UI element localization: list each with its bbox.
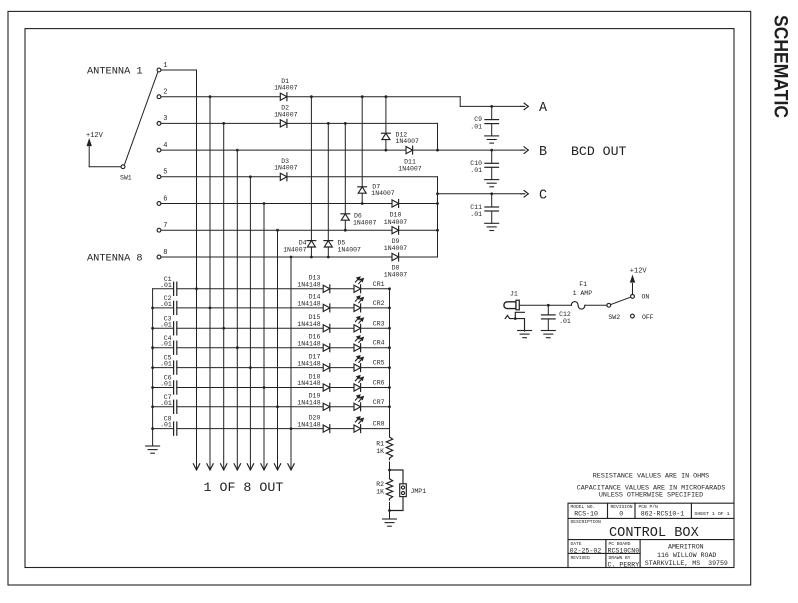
svg-text:1: 1 bbox=[163, 62, 167, 70]
svg-text:CR3: CR3 bbox=[373, 320, 385, 327]
junction C out bbox=[436, 192, 439, 195]
wire +12V to SW1 pivot bbox=[89, 166, 121, 168]
wire LED CR7 to bus bbox=[361, 406, 390, 408]
svg-text:116 WILLOW ROAD: 116 WILLOW ROAD bbox=[657, 552, 716, 559]
junction bottom of D12 vertical bbox=[385, 149, 388, 152]
wire output drop line 3 bbox=[223, 123, 225, 469]
ground left capacitor bus bbox=[146, 445, 160, 447]
junction R1/JMP1 bbox=[388, 469, 391, 472]
junction R2/JMP1 bottom bbox=[388, 509, 391, 512]
ground below R2 bbox=[383, 518, 397, 520]
junction row 6 / drop line bbox=[263, 386, 266, 389]
diode D20 1N4148 bbox=[323, 425, 330, 432]
node 1 (antenna selector contact) bbox=[157, 68, 161, 72]
svg-text:JMP1: JMP1 bbox=[411, 488, 427, 495]
svg-text:C: C bbox=[539, 189, 547, 204]
junction top of D6 vertical bbox=[344, 122, 347, 125]
svg-text:J1: J1 bbox=[510, 291, 518, 298]
wire C output bbox=[438, 193, 521, 195]
junction LED bus row 6 bbox=[388, 386, 391, 389]
diode D4 1N4007 bbox=[307, 240, 316, 242]
svg-text:862-RCS10-1: 862-RCS10-1 bbox=[641, 510, 685, 517]
svg-text:5: 5 bbox=[163, 169, 167, 177]
power +12V (right) bbox=[632, 284, 634, 295]
junction top of D4 vertical bbox=[310, 95, 313, 98]
junction LED bus row 7 bbox=[388, 405, 391, 408]
junction LED bus row 5 bbox=[388, 366, 391, 369]
svg-text:.01: .01 bbox=[160, 301, 172, 308]
wire from node 1 bbox=[161, 69, 197, 71]
junction bottom of D4 vertical bbox=[310, 256, 313, 259]
diode D8 1N4007 bbox=[392, 253, 399, 260]
svg-text:CONTROL BOX: CONTROL BOX bbox=[609, 526, 699, 541]
svg-text:1 AMP: 1 AMP bbox=[573, 290, 593, 297]
arrow output 3 bbox=[221, 464, 224, 470]
junction C10 tap bbox=[490, 149, 493, 152]
LED CR3 bbox=[354, 325, 361, 332]
junction B bus / B line bbox=[436, 149, 439, 152]
ground below C10 bbox=[485, 179, 499, 181]
node 6 (antenna selector contact) bbox=[157, 202, 161, 206]
arrow output 8 bbox=[288, 464, 291, 470]
wire LED CR1 to bus bbox=[361, 288, 390, 290]
svg-text:RESISTANCE VALUES ARE IN OHMS: RESISTANCE VALUES ARE IN OHMS bbox=[593, 473, 709, 481]
svg-text:1N4148: 1N4148 bbox=[297, 301, 321, 308]
svg-text:1N4007: 1N4007 bbox=[371, 190, 395, 197]
junction node 5 / drop line bbox=[249, 175, 252, 178]
svg-text:A: A bbox=[539, 101, 548, 116]
resistor R2 1K bbox=[386, 479, 392, 500]
ground J1 bbox=[518, 330, 532, 332]
ground below C11 bbox=[485, 222, 499, 224]
svg-text:1N4007: 1N4007 bbox=[384, 271, 408, 278]
wire from node 2 bbox=[161, 96, 460, 98]
svg-text:.01: .01 bbox=[160, 321, 172, 328]
diode D9 1N4007 bbox=[392, 227, 399, 234]
junction C12 tap bbox=[547, 304, 550, 307]
node 8 (antenna selector contact) bbox=[157, 255, 161, 259]
junction C bus / node 6 bbox=[436, 202, 439, 205]
junction cap bus row 4 bbox=[151, 346, 154, 349]
switch SW1 bbox=[121, 165, 125, 169]
svg-text:STARKVILLE, MS 39759: STARKVILLE, MS 39759 bbox=[645, 560, 728, 567]
svg-text:REVISED: REVISED bbox=[571, 555, 591, 561]
diode D19 1N4148 bbox=[323, 403, 330, 410]
svg-text:RCS-10: RCS-10 bbox=[574, 510, 598, 517]
arrow output 2 bbox=[207, 464, 210, 470]
junction cap bus row 3 bbox=[151, 327, 154, 330]
junction node 3 / drop line bbox=[222, 122, 225, 125]
svg-text:CR6: CR6 bbox=[373, 380, 385, 387]
diode D3 1N4007 bbox=[280, 173, 287, 180]
svg-text:SCHEMATIC: SCHEMATIC bbox=[770, 15, 792, 118]
wire from node 5 bbox=[161, 176, 438, 178]
wire matrix vertical for D12 bbox=[385, 97, 387, 150]
svg-text:1N4007: 1N4007 bbox=[396, 138, 420, 145]
arrow output 6 bbox=[261, 464, 264, 470]
arrow output C bbox=[524, 191, 528, 194]
svg-text:B: B bbox=[539, 145, 547, 160]
junction cap bus row 2 bbox=[151, 307, 154, 310]
node 4 (antenna selector contact) bbox=[157, 148, 161, 152]
svg-text:3: 3 bbox=[163, 115, 167, 123]
wire row 5 bbox=[177, 367, 323, 369]
LED CR4 bbox=[354, 344, 361, 351]
svg-text:.01: .01 bbox=[160, 381, 172, 388]
wire row 7 to LED bbox=[330, 406, 354, 408]
wire LED CR4 to bus bbox=[361, 347, 390, 349]
svg-text:+12V: +12V bbox=[630, 267, 648, 275]
arrow output 4 bbox=[234, 464, 237, 470]
junction top of D12 vertical bbox=[385, 95, 388, 98]
wire J1 to SW2 bbox=[519, 304, 571, 306]
wire JMP1 branch top bbox=[390, 470, 404, 484]
wire from node 4 bbox=[161, 149, 521, 151]
svg-text:1N4148: 1N4148 bbox=[297, 282, 321, 289]
wire left capacitor bus bbox=[152, 289, 154, 446]
junction node 4 / drop line bbox=[236, 149, 239, 152]
junction row 5 / drop line bbox=[249, 366, 252, 369]
wire C bus vertical bbox=[437, 177, 439, 257]
svg-text:.01: .01 bbox=[470, 211, 482, 218]
junction C bus / node 7 bbox=[436, 229, 439, 232]
arrow output 7 bbox=[274, 464, 277, 470]
junction LED bus row 4 bbox=[388, 346, 391, 349]
arrow output A bbox=[524, 103, 528, 106]
svg-text:1N4007: 1N4007 bbox=[274, 165, 298, 172]
capacitor C10 .01 bbox=[491, 150, 493, 163]
capacitor C12 .01 bbox=[547, 305, 549, 315]
svg-text:F1: F1 bbox=[579, 281, 587, 288]
svg-text:1N4148: 1N4148 bbox=[297, 421, 321, 428]
diode D12 1N4007 bbox=[382, 132, 391, 134]
svg-text:0: 0 bbox=[619, 510, 623, 517]
node 5 (antenna selector contact) bbox=[157, 175, 161, 179]
wire from node 6 bbox=[161, 203, 438, 205]
junction row 7 / drop line bbox=[276, 405, 279, 408]
junction LED bus row 3 bbox=[388, 327, 391, 330]
wire R2 to ground bbox=[389, 503, 391, 520]
svg-text:1N4148: 1N4148 bbox=[297, 400, 321, 407]
svg-text:CR8: CR8 bbox=[373, 421, 385, 428]
svg-text:SW1: SW1 bbox=[120, 175, 132, 182]
svg-text:.01: .01 bbox=[160, 400, 172, 407]
junction cap bus row 7 bbox=[151, 405, 154, 408]
svg-text:1N4007: 1N4007 bbox=[353, 219, 377, 226]
jumper JMP1 bbox=[400, 484, 407, 497]
wire row 8 bbox=[177, 428, 323, 430]
junction bottom of D6 vertical bbox=[344, 229, 347, 232]
svg-text:PCB P/N: PCB P/N bbox=[639, 504, 659, 510]
svg-text:1N4007: 1N4007 bbox=[274, 85, 298, 92]
wire output drop line 7 bbox=[277, 230, 279, 469]
LED CR8 bbox=[354, 425, 361, 432]
wire output drop line 6 bbox=[263, 204, 265, 470]
svg-text:CR4: CR4 bbox=[373, 340, 385, 347]
svg-text:AMERITRON: AMERITRON bbox=[668, 544, 704, 551]
wire output drop line 5 bbox=[249, 177, 251, 470]
capacitor C2 .01 bbox=[153, 307, 174, 309]
diode D2 1N4007 bbox=[280, 120, 287, 127]
svg-text:CR2: CR2 bbox=[373, 300, 385, 307]
junction cap bus row 6 bbox=[151, 386, 154, 389]
wire row 6 bbox=[177, 387, 323, 389]
junction C11 tap bbox=[490, 192, 493, 195]
wire row 2 to LED bbox=[330, 307, 354, 309]
capacitor C5 .01 bbox=[153, 367, 174, 369]
svg-text:CR7: CR7 bbox=[373, 399, 385, 406]
LED CR5 bbox=[354, 364, 361, 371]
svg-text:1 OF 8 OUT: 1 OF 8 OUT bbox=[204, 480, 284, 495]
J1 sleeve contact spring bbox=[505, 315, 524, 331]
wire row 4 bbox=[177, 347, 323, 349]
svg-text:1N4007: 1N4007 bbox=[338, 246, 362, 253]
capacitor C4 .01 bbox=[153, 347, 174, 349]
wire output drop line 4 bbox=[236, 150, 238, 469]
wire row 7 bbox=[177, 406, 323, 408]
LED CR1 bbox=[354, 285, 361, 292]
junction bottom of D5 vertical bbox=[327, 256, 330, 259]
svg-text:SHEET 1 OF 1: SHEET 1 OF 1 bbox=[694, 511, 729, 517]
svg-text:1N4007: 1N4007 bbox=[384, 219, 408, 226]
diode D7 1N4007 bbox=[358, 186, 367, 188]
junction top of D7 vertical bbox=[361, 95, 364, 98]
junction node 8 / drop line bbox=[290, 256, 293, 259]
svg-text:2: 2 bbox=[163, 89, 167, 97]
wire output drop line 8 bbox=[290, 257, 292, 469]
svg-text:ON: ON bbox=[642, 293, 650, 300]
wire LED CR3 to bus bbox=[361, 327, 390, 329]
node 2 (antenna selector contact) bbox=[157, 95, 161, 99]
wire LED CR5 to bus bbox=[361, 367, 390, 369]
svg-text:MODEL NO.: MODEL NO. bbox=[571, 504, 596, 510]
svg-text:1N4007: 1N4007 bbox=[274, 111, 298, 118]
svg-text:1N4148: 1N4148 bbox=[297, 321, 321, 328]
junction bottom of D7 vertical bbox=[361, 202, 364, 205]
svg-text:.01: .01 bbox=[470, 123, 482, 130]
junction row 8 / drop line bbox=[290, 427, 293, 430]
wire A output step bbox=[459, 97, 461, 107]
wire from node 3 bbox=[161, 122, 438, 124]
svg-text:CR1: CR1 bbox=[373, 281, 385, 288]
LED CR6 bbox=[354, 384, 361, 391]
svg-text:4: 4 bbox=[163, 142, 167, 150]
junction cap bus row 5 bbox=[151, 366, 154, 369]
junction cap bus row 8 bbox=[151, 427, 154, 430]
junction row 2 / drop line bbox=[209, 307, 212, 310]
LED CR2 bbox=[354, 304, 361, 311]
svg-text:+12V: +12V bbox=[86, 132, 104, 140]
svg-text:1K: 1K bbox=[376, 489, 384, 496]
switch SW2 bbox=[607, 303, 611, 307]
wire from node 8 bbox=[161, 256, 438, 258]
junction node 2 / drop line bbox=[209, 95, 212, 98]
junction node 6 / drop line bbox=[263, 202, 266, 205]
wire row 3 bbox=[177, 327, 323, 329]
diode D11 1N4007 bbox=[406, 147, 413, 154]
wire row 8 to LED bbox=[330, 428, 354, 430]
wire matrix vertical for D6 bbox=[344, 123, 346, 230]
wire JMP1 branch bottom bbox=[390, 497, 404, 511]
junction LED bus row 2 bbox=[388, 307, 391, 310]
capacitor C11 .01 bbox=[491, 194, 493, 207]
fuse F1 1 AMP bbox=[571, 302, 585, 310]
svg-text:1N4148: 1N4148 bbox=[297, 360, 321, 367]
svg-text:1N4007: 1N4007 bbox=[398, 165, 422, 172]
svg-text:ANTENNA 1: ANTENNA 1 bbox=[87, 66, 143, 78]
wire row 5 to LED bbox=[330, 367, 354, 369]
ground below C9 bbox=[485, 135, 499, 137]
diode D16 1N4148 bbox=[323, 344, 330, 351]
svg-text:CR5: CR5 bbox=[373, 360, 385, 367]
svg-text:RCS10CN0: RCS10CN0 bbox=[608, 547, 640, 554]
node 3 (antenna selector contact) bbox=[157, 122, 161, 126]
wire output drop line 2 bbox=[209, 97, 211, 470]
junction C9 tap bbox=[490, 105, 493, 108]
wire row 3 to LED bbox=[330, 327, 354, 329]
wire LED common bus bbox=[389, 289, 391, 437]
wire row 1 to LED bbox=[330, 288, 354, 290]
diode D14 1N4148 bbox=[323, 304, 330, 311]
wire LED CR2 to bus bbox=[361, 307, 390, 309]
ground below C12 bbox=[541, 330, 555, 332]
wire fuse to SW2 bbox=[585, 304, 607, 306]
resistor R1 1K bbox=[386, 437, 392, 460]
svg-text:1K: 1K bbox=[376, 448, 384, 455]
svg-text:7: 7 bbox=[163, 222, 167, 230]
svg-text:D10: D10 bbox=[390, 212, 402, 219]
wire LED CR6 to bus bbox=[361, 387, 390, 389]
capacitor C1 .01 bbox=[153, 288, 174, 290]
J1 tip contact hook bbox=[515, 312, 524, 318]
svg-text:REVISION: REVISION bbox=[611, 504, 633, 510]
wire row 1 bbox=[177, 288, 323, 290]
svg-text:6: 6 bbox=[163, 195, 167, 203]
capacitor C6 .01 bbox=[153, 387, 174, 389]
svg-text:C. PERRY: C. PERRY bbox=[608, 561, 640, 568]
svg-text:.01: .01 bbox=[160, 361, 172, 368]
LED CR7 bbox=[354, 403, 361, 410]
diode D13 1N4148 bbox=[323, 285, 330, 292]
node 7 (antenna selector contact) bbox=[157, 228, 161, 232]
junction node 7 / drop line bbox=[276, 229, 279, 232]
svg-text:C9: C9 bbox=[474, 116, 482, 123]
svg-text:1N4007: 1N4007 bbox=[283, 246, 307, 253]
svg-text:SW2: SW2 bbox=[608, 314, 620, 321]
junction row 1 / drop line bbox=[195, 287, 198, 290]
svg-text:DRAWN BY: DRAWN BY bbox=[609, 555, 631, 561]
junction row 3 / drop line bbox=[222, 327, 225, 330]
wire row 6 to LED bbox=[330, 387, 354, 389]
arrow output 1 bbox=[193, 464, 196, 470]
wire row 4 to LED bbox=[330, 347, 354, 349]
wire output drop line 1 bbox=[196, 70, 198, 469]
capacitor C3 .01 bbox=[153, 327, 174, 329]
svg-text:1N4007: 1N4007 bbox=[384, 245, 408, 252]
diode D1 1N4007 bbox=[280, 93, 287, 100]
wire B bus corner bbox=[437, 123, 439, 150]
diode D10 1N4007 bbox=[392, 200, 399, 207]
svg-text:1N4148: 1N4148 bbox=[297, 380, 321, 387]
svg-text:.01: .01 bbox=[470, 167, 482, 174]
svg-text:02-25-02: 02-25-02 bbox=[570, 547, 602, 554]
wire LED CR8 to bus bbox=[361, 428, 390, 430]
wire row 2 bbox=[177, 307, 323, 309]
arrow output B bbox=[524, 147, 528, 150]
wire R1 to R2 bbox=[389, 462, 391, 479]
svg-text:UNLESS OTHERWISE SPECIFIED: UNLESS OTHERWISE SPECIFIED bbox=[599, 492, 703, 500]
title block frame bbox=[568, 503, 734, 567]
svg-text:.01: .01 bbox=[160, 341, 172, 348]
svg-text:DATE: DATE bbox=[571, 541, 582, 547]
svg-text:ANTENNA 8: ANTENNA 8 bbox=[87, 253, 143, 265]
svg-text:.01: .01 bbox=[160, 422, 172, 429]
wire from node 7 bbox=[161, 229, 438, 231]
svg-text:BCD OUT: BCD OUT bbox=[571, 144, 626, 159]
svg-text:8: 8 bbox=[163, 249, 167, 257]
svg-text:R2: R2 bbox=[376, 481, 384, 488]
diode D17 1N4148 bbox=[323, 364, 330, 371]
svg-text:OFF: OFF bbox=[642, 314, 654, 321]
svg-text:DESCRIPTION: DESCRIPTION bbox=[571, 519, 602, 525]
diode D15 1N4148 bbox=[323, 325, 330, 332]
diode D18 1N4148 bbox=[323, 384, 330, 391]
arrow output 5 bbox=[247, 464, 250, 470]
svg-text:PC BOARD: PC BOARD bbox=[609, 541, 631, 547]
wire matrix vertical for D7 bbox=[361, 97, 363, 204]
svg-text:1N4148: 1N4148 bbox=[297, 340, 321, 347]
junction top of D5 vertical bbox=[327, 122, 330, 125]
svg-text:D8: D8 bbox=[392, 264, 400, 271]
junction LED bus row 1 bbox=[388, 287, 391, 290]
diode D6 1N4007 bbox=[341, 213, 350, 215]
wire matrix vertical for D5 bbox=[327, 123, 329, 257]
wire matrix vertical for D4 bbox=[310, 97, 312, 257]
capacitor C7 .01 bbox=[153, 406, 174, 408]
junction row 4 / drop line bbox=[236, 346, 239, 349]
capacitor C8 .01 bbox=[153, 428, 174, 430]
capacitor C9 .01 bbox=[491, 106, 493, 119]
svg-text:.01: .01 bbox=[559, 318, 571, 325]
diode D5 1N4007 bbox=[324, 240, 333, 242]
inner border frame bbox=[25, 29, 734, 568]
svg-text:R1: R1 bbox=[376, 440, 384, 447]
svg-text:.01: .01 bbox=[160, 282, 172, 289]
